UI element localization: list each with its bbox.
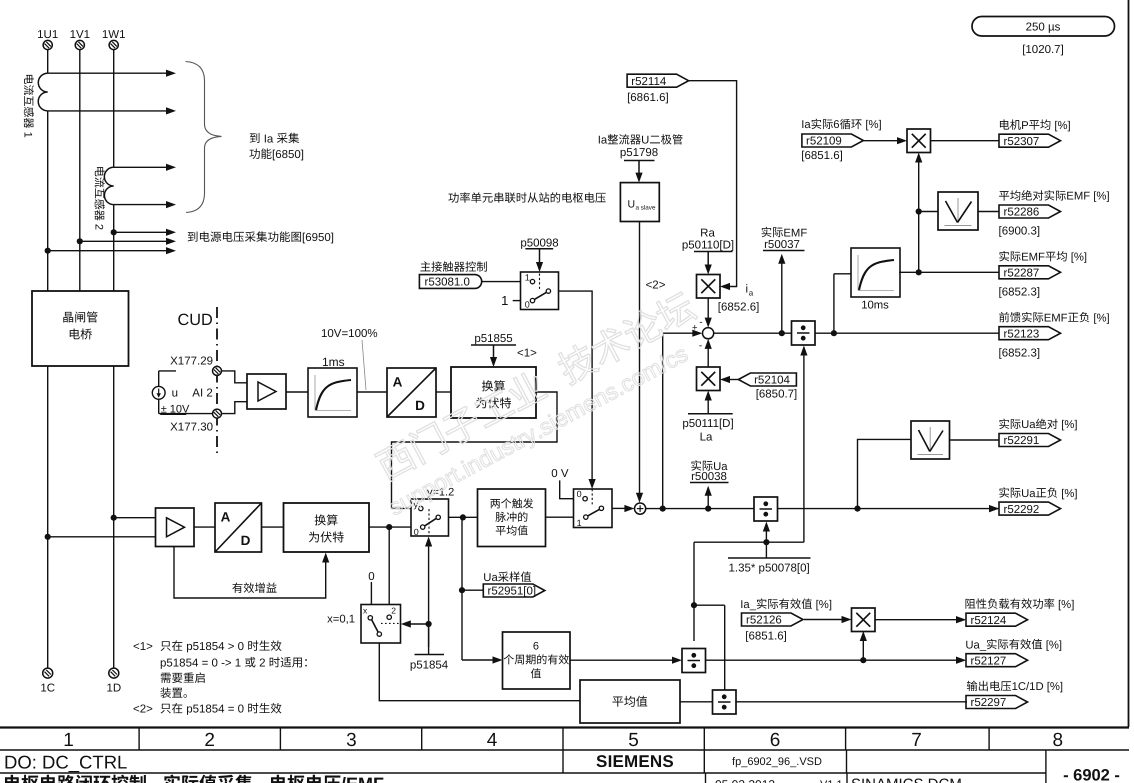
svg-text:V1.1: V1.1 — [820, 779, 843, 783]
svg-text:<1>: <1> — [133, 641, 153, 653]
svg-text:1: 1 — [501, 293, 508, 308]
svg-text:3: 3 — [346, 730, 357, 751]
svg-text:[6950]: [6950] — [302, 232, 334, 244]
svg-text:1.35* p50078[0]: 1.35* p50078[0] — [729, 562, 810, 574]
svg-text:r52291: r52291 — [1004, 435, 1040, 447]
svg-text:fp_6902_96_.VSD: fp_6902_96_.VSD — [732, 756, 822, 768]
svg-text:[6852.3]: [6852.3] — [999, 347, 1041, 359]
svg-text:1C: 1C — [40, 683, 55, 695]
svg-text:1: 1 — [63, 730, 74, 751]
svg-text:Ia: Ia — [598, 135, 608, 147]
svg-text:[6850.7]: [6850.7] — [756, 388, 798, 400]
svg-text:p51798: p51798 — [620, 147, 658, 159]
svg-text:[6851.6]: [6851.6] — [745, 631, 787, 643]
svg-text:[6852.6]: [6852.6] — [718, 302, 760, 314]
svg-text:[%]: [%] — [1090, 312, 1109, 324]
svg-text:[%]: [%] — [813, 599, 832, 611]
svg-text:-: - — [699, 341, 702, 352]
svg-text:r52287: r52287 — [1004, 268, 1040, 280]
svg-text:0: 0 — [368, 571, 374, 583]
svg-text:r50038: r50038 — [691, 471, 727, 483]
svg-text:r52286: r52286 — [1004, 207, 1040, 219]
svg-text:P: P — [1021, 120, 1029, 132]
svg-text:AI 2: AI 2 — [192, 388, 212, 400]
svg-text:<2>: <2> — [646, 280, 666, 292]
svg-text:r52124: r52124 — [971, 615, 1007, 627]
svg-text:U: U — [641, 135, 649, 147]
svg-text:[6851.6]: [6851.6] — [801, 150, 843, 162]
svg-text:-: - — [699, 317, 702, 328]
svg-text:8: 8 — [1053, 730, 1064, 751]
svg-text:r52123: r52123 — [1004, 328, 1040, 340]
svg-text:p50098: p50098 — [520, 237, 558, 249]
svg-text:CUD: CUD — [178, 311, 213, 329]
svg-text:EMF [%]: EMF [%] — [1066, 191, 1109, 203]
svg-text:1D: 1D — [106, 683, 121, 695]
svg-text:- 6902 -: - 6902 - — [1063, 767, 1120, 783]
svg-text:[6900.3]: [6900.3] — [999, 226, 1041, 238]
svg-text:Ua: Ua — [1021, 419, 1036, 431]
svg-text:1V1: 1V1 — [70, 29, 90, 41]
svg-text:6: 6 — [533, 641, 539, 653]
svg-text:X177.29: X177.29 — [170, 355, 213, 367]
svg-text:[%]: [%] — [1068, 252, 1087, 264]
svg-text:1W1: 1W1 — [102, 29, 126, 41]
svg-text:Ia_: Ia_ — [740, 599, 756, 611]
svg-text:10V=100%: 10V=100% — [321, 328, 378, 340]
svg-text:1U1: 1U1 — [37, 29, 58, 41]
svg-text:a: a — [749, 288, 754, 297]
svg-text:[6852.3]: [6852.3] — [999, 287, 1041, 299]
svg-text:r53081.0: r53081.0 — [425, 277, 470, 289]
svg-text:x=0,1: x=0,1 — [327, 613, 355, 625]
svg-text:A: A — [221, 510, 231, 525]
svg-text:05.03.2013: 05.03.2013 — [715, 778, 775, 783]
svg-text:<2>: <2> — [133, 704, 153, 716]
svg-text:a slave: a slave — [636, 205, 656, 212]
svg-text:Ua_: Ua_ — [965, 639, 986, 651]
svg-text:0: 0 — [414, 527, 419, 537]
svg-text:EMF: EMF — [783, 227, 807, 239]
svg-text:+: + — [692, 323, 698, 334]
svg-text:p51854 = 0 -> 1: p51854 = 0 -> 1 — [160, 658, 244, 670]
svg-text:p50110[D]: p50110[D] — [682, 239, 734, 251]
svg-text:D: D — [241, 533, 251, 548]
svg-text:2: 2 — [204, 730, 215, 751]
svg-text:[%]: [%] — [1055, 599, 1074, 611]
svg-text:r52127: r52127 — [971, 655, 1007, 667]
svg-text:0 V: 0 V — [551, 468, 569, 480]
svg-text:U: U — [628, 199, 636, 211]
svg-text:r52104: r52104 — [754, 375, 790, 387]
svg-text:u: u — [172, 388, 178, 400]
svg-text:6: 6 — [770, 730, 781, 751]
svg-text:[1020.7]: [1020.7] — [1022, 44, 1064, 56]
svg-text:[6850]: [6850] — [272, 149, 304, 161]
svg-text:p51855: p51855 — [474, 333, 512, 345]
svg-text:X177.30: X177.30 — [170, 421, 213, 433]
svg-text:p51854 > 0: p51854 > 0 — [183, 641, 247, 653]
svg-text:1: 1 — [577, 518, 582, 528]
svg-text:250 µs: 250 µs — [1026, 21, 1061, 33]
svg-text:1: 1 — [525, 272, 530, 282]
svg-text:[%]: [%] — [1058, 419, 1077, 431]
svg-text:p50111[D]: p50111[D] — [682, 418, 733, 430]
svg-text:r52292: r52292 — [1004, 504, 1040, 516]
svg-text:± 10V: ± 10V — [161, 403, 190, 415]
svg-text:EMF: EMF — [1044, 312, 1068, 324]
svg-text:7: 7 — [911, 730, 922, 751]
svg-text:p51854: p51854 — [410, 659, 449, 671]
svg-text:1: 1 — [22, 132, 34, 138]
svg-text:6: 6 — [833, 119, 839, 131]
svg-text:Ua: Ua — [1021, 488, 1036, 500]
svg-text:[%]: [%] — [1051, 120, 1070, 132]
svg-text:SIEMENS: SIEMENS — [596, 752, 674, 771]
svg-text:2: 2 — [256, 658, 269, 670]
svg-text:r52114: r52114 — [631, 76, 667, 88]
svg-text:[%]: [%] — [862, 119, 881, 131]
svg-text:r52307: r52307 — [1004, 136, 1040, 148]
svg-text:i: i — [746, 283, 749, 295]
svg-text:D: D — [415, 398, 425, 413]
svg-text:Ua: Ua — [483, 572, 498, 584]
svg-text:La: La — [700, 431, 713, 443]
svg-text:r52297: r52297 — [971, 697, 1007, 709]
svg-text:r52126: r52126 — [746, 615, 782, 627]
svg-text:DO: DC_CTRL: DO: DC_CTRL — [4, 752, 127, 773]
svg-text:/EMF: /EMF — [341, 774, 384, 783]
svg-text:2: 2 — [391, 606, 396, 616]
svg-text:0: 0 — [525, 299, 530, 309]
svg-text:10ms: 10ms — [861, 300, 889, 312]
svg-text:1ms: 1ms — [322, 355, 345, 369]
svg-text:2: 2 — [93, 224, 105, 230]
svg-text:5: 5 — [628, 730, 639, 751]
svg-text:Ra: Ra — [700, 227, 715, 239]
svg-text:-: - — [253, 774, 269, 783]
svg-text:Ia: Ia — [801, 119, 811, 131]
svg-text:[%]: [%] — [1043, 639, 1062, 651]
svg-text:r52951[0]: r52951[0] — [488, 586, 537, 598]
svg-text:4: 4 — [487, 730, 498, 751]
svg-text:SINAMICS DCM: SINAMICS DCM — [851, 776, 962, 783]
svg-text:1C/1D [%]: 1C/1D [%] — [1012, 681, 1063, 693]
svg-text:0: 0 — [577, 489, 582, 499]
svg-text:r50037: r50037 — [764, 239, 800, 251]
svg-text:-: - — [147, 774, 163, 783]
svg-text:A: A — [393, 375, 403, 390]
svg-text:[%]: [%] — [1058, 488, 1077, 500]
svg-text:EMF: EMF — [1021, 252, 1045, 264]
svg-text:<1>: <1> — [517, 348, 537, 360]
svg-text:[6861.6]: [6861.6] — [627, 92, 669, 104]
svg-text:Ia: Ia — [261, 133, 277, 145]
svg-text:r52109: r52109 — [806, 136, 842, 148]
svg-text:p51854 = 0: p51854 = 0 — [183, 704, 247, 716]
